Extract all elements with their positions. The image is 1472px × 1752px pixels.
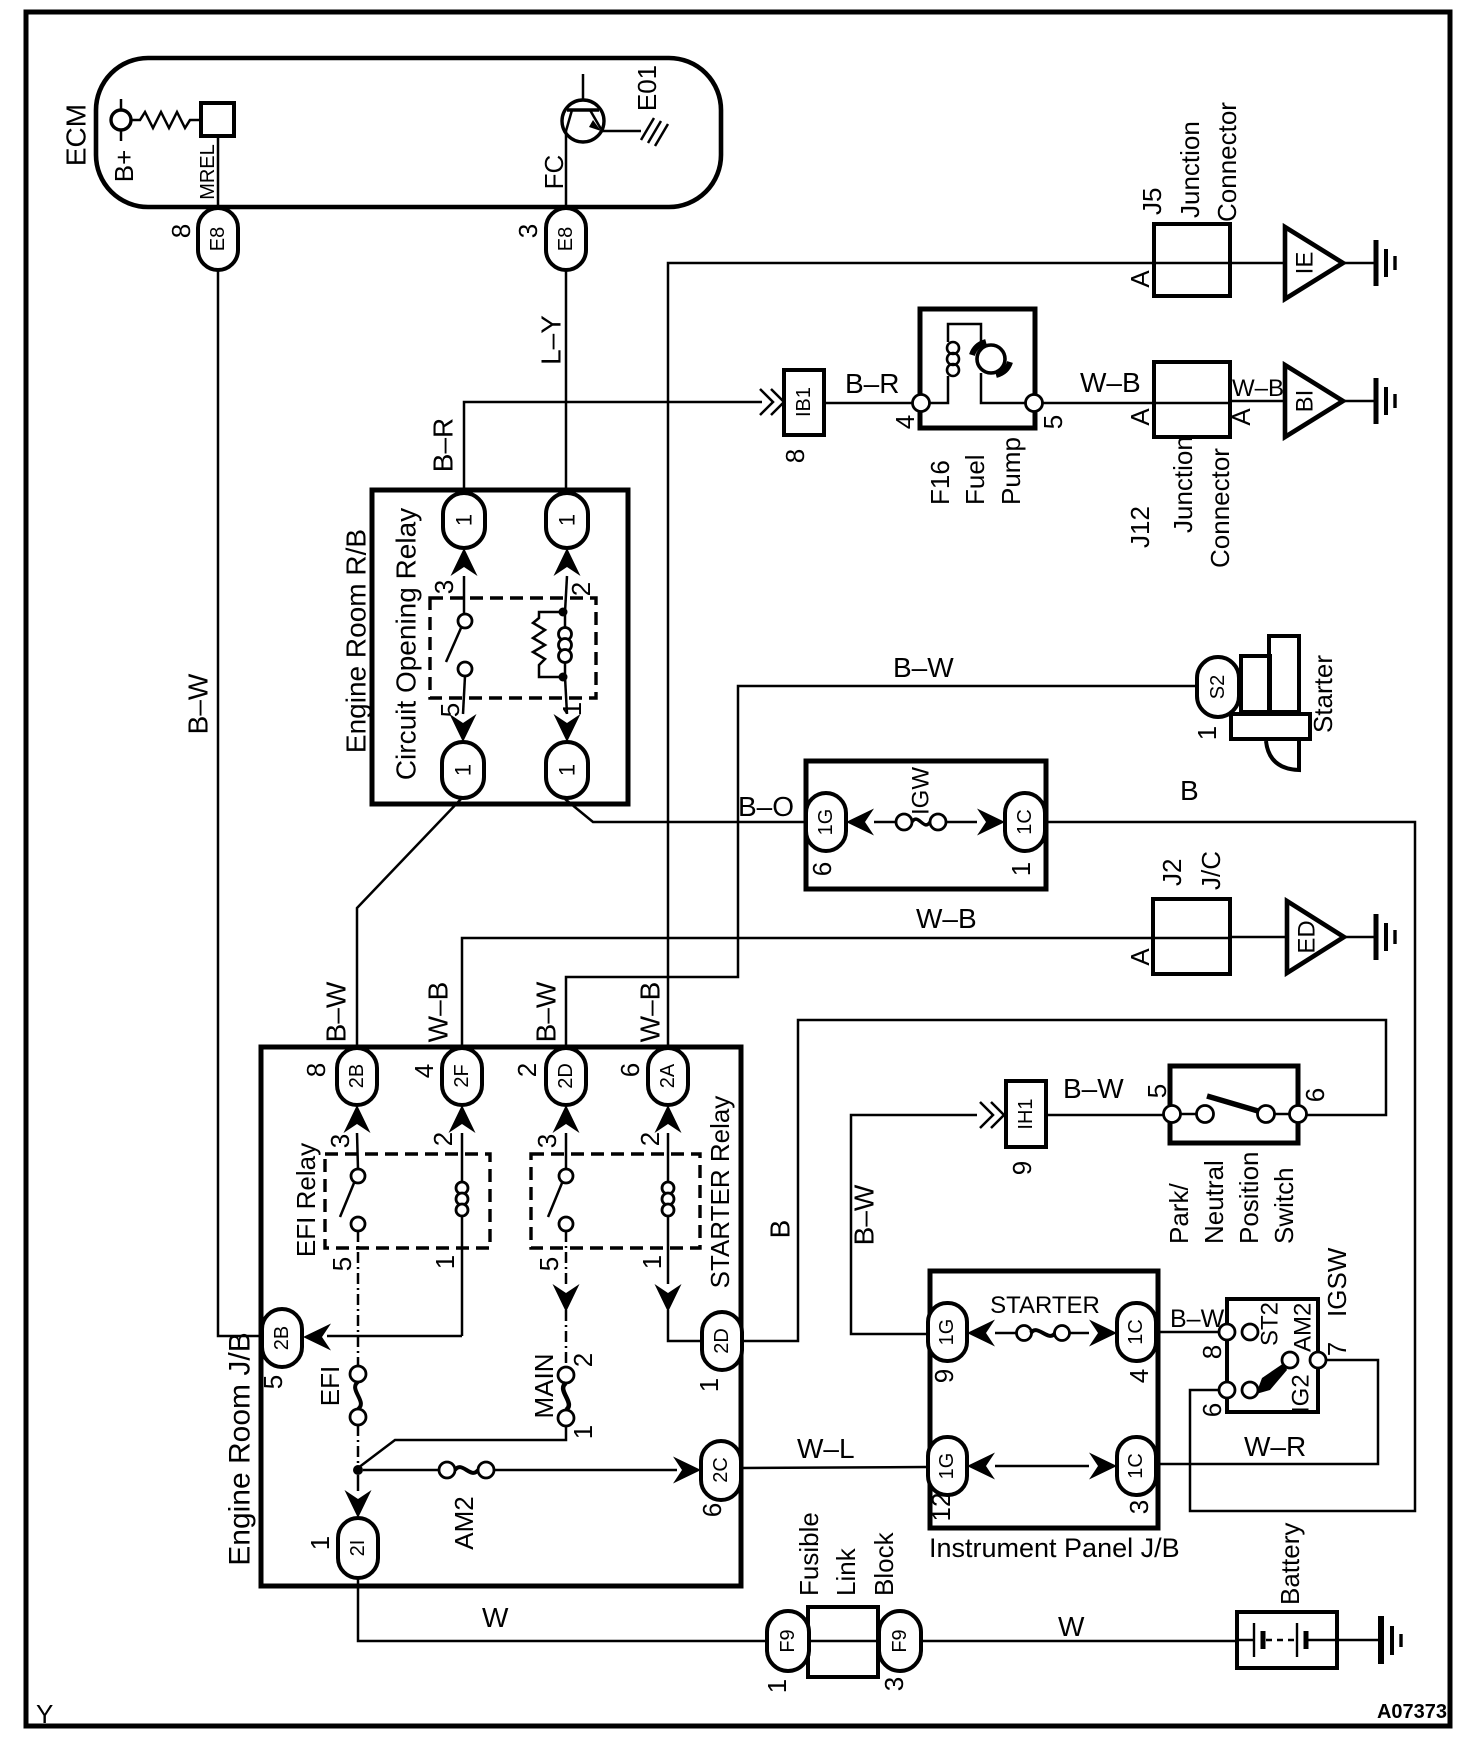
svg-text:F9: F9 xyxy=(889,1629,911,1652)
svg-text:W–R: W–R xyxy=(1244,1431,1306,1462)
svg-text:2: 2 xyxy=(428,1132,458,1146)
IP pin oval 1G top xyxy=(928,1303,967,1361)
IGW fuse xyxy=(874,814,977,830)
junction connector J2 xyxy=(1153,899,1230,974)
svg-text:1G: 1G xyxy=(936,1319,958,1346)
wire coil to pin1 xyxy=(565,677,567,714)
svg-text:1: 1 xyxy=(637,1255,667,1269)
svg-text:B: B xyxy=(1180,775,1199,806)
svg-text:B–W: B–W xyxy=(321,981,352,1042)
ground triangle IE xyxy=(1285,227,1343,299)
svg-text:2C: 2C xyxy=(710,1457,732,1483)
label J12 Junction Connector xyxy=(1125,436,1235,568)
svg-text:IE: IE xyxy=(1292,252,1319,275)
svg-text:2I: 2I xyxy=(347,1540,369,1557)
label F16 Fuel Pump xyxy=(925,437,1026,505)
IP pin oval 1G bottom xyxy=(928,1437,967,1495)
arrow into top-left oval xyxy=(451,548,478,576)
pin oval F9 left xyxy=(767,1611,809,1671)
pin 3 connector E8 (FC) xyxy=(546,208,586,270)
svg-text:F16: F16 xyxy=(925,460,955,505)
J/B pin oval 2I xyxy=(338,1518,378,1578)
junction connector J12 xyxy=(1154,362,1230,437)
svg-text:Link: Link xyxy=(831,1547,861,1596)
wire switch to pin5 xyxy=(463,676,465,714)
label Fusible Link Block xyxy=(794,1512,899,1596)
J/B side pin oval 2B xyxy=(262,1309,302,1367)
IGSW AM2 contacts xyxy=(1282,1352,1298,1368)
starter symbol xyxy=(1231,636,1310,770)
svg-text:9: 9 xyxy=(929,1369,959,1383)
svg-text:12: 12 xyxy=(926,1493,956,1522)
IGSW pin 6 contacts xyxy=(1219,1382,1235,1398)
svg-text:F9: F9 xyxy=(777,1629,799,1652)
svg-text:2: 2 xyxy=(568,1353,598,1367)
svg-text:1: 1 xyxy=(555,514,580,526)
svg-text:3: 3 xyxy=(513,224,543,238)
wire between bottom 1G and 1C xyxy=(995,1465,1089,1468)
svg-text:1C: 1C xyxy=(1014,809,1036,835)
svg-text:1G: 1G xyxy=(815,809,837,836)
wire FC to pin xyxy=(565,131,568,210)
relay pin oval 1 bottom-left xyxy=(442,742,484,798)
fuel pump F16 box xyxy=(920,309,1035,428)
svg-text:Fuel: Fuel xyxy=(960,454,990,505)
relay pin oval 1 top-right xyxy=(546,493,588,548)
svg-text:8: 8 xyxy=(166,224,196,238)
svg-text:1G: 1G xyxy=(936,1453,958,1480)
svg-text:A: A xyxy=(1125,270,1155,288)
wire J12 to BI triangle xyxy=(1230,400,1285,403)
resistor inside ECM xyxy=(131,112,201,128)
svg-text:Junction: Junction xyxy=(1168,436,1198,533)
label J5 Junction Connector xyxy=(1137,102,1242,222)
svg-text:1: 1 xyxy=(557,702,587,716)
svg-text:8: 8 xyxy=(780,449,810,463)
ground triangle BI xyxy=(1285,365,1343,437)
svg-text:B–W: B–W xyxy=(1170,1305,1225,1333)
transistor FC driver xyxy=(562,74,604,142)
wire through block xyxy=(767,1640,1237,1643)
svg-text:3: 3 xyxy=(325,1134,355,1148)
svg-text:Connector: Connector xyxy=(1212,102,1242,222)
arrow into top-right oval xyxy=(554,548,581,576)
svg-text:5: 5 xyxy=(1038,415,1068,429)
STARTER fuse xyxy=(995,1326,1089,1341)
MAIN fuse xyxy=(558,1367,574,1426)
wire STARTER relay 5 to MAIN fuse xyxy=(565,1231,568,1284)
wire junction to 2I xyxy=(357,1475,360,1491)
svg-text:5: 5 xyxy=(435,703,465,717)
label Park/Neutral Position Switch xyxy=(1164,1152,1299,1245)
svg-text:3: 3 xyxy=(1124,1500,1154,1514)
svg-text:5: 5 xyxy=(534,1257,564,1271)
J/B side pin oval 2D xyxy=(702,1312,742,1370)
switch blade xyxy=(1207,1096,1258,1111)
wire IE to ground xyxy=(1343,262,1374,265)
svg-text:Starter: Starter xyxy=(1308,655,1338,733)
ground symbol (IE) xyxy=(1376,240,1395,286)
J/B pin oval 2B xyxy=(337,1048,377,1105)
wire battery to ground xyxy=(1337,1639,1379,1642)
wire J2 to ED triangle xyxy=(1230,936,1287,939)
wire junction to AM2 fuse xyxy=(363,1469,439,1472)
svg-text:Instrument Panel J/B: Instrument Panel J/B xyxy=(929,1533,1180,1563)
svg-text:8: 8 xyxy=(301,1063,331,1077)
svg-text:2B: 2B xyxy=(346,1064,368,1088)
svg-text:Pump: Pump xyxy=(996,437,1026,505)
svg-text:Junction: Junction xyxy=(1175,121,1205,218)
svg-text:B+: B+ xyxy=(109,150,139,183)
Instrument Panel J/B box xyxy=(930,1271,1158,1528)
wire B-O relay to IGW 1G xyxy=(565,799,806,822)
STARTER Relay dashed box xyxy=(531,1154,700,1248)
svg-text:ECM: ECM xyxy=(61,104,92,166)
svg-text:Switch: Switch xyxy=(1269,1167,1299,1244)
svg-text:W: W xyxy=(482,1602,509,1633)
svg-text:4: 4 xyxy=(1124,1369,1154,1383)
svg-text:A: A xyxy=(1226,408,1256,426)
junction node xyxy=(353,1465,363,1475)
battery cells xyxy=(1237,1623,1337,1657)
fuel pump pin 5 xyxy=(1026,395,1043,412)
junction connector J5 xyxy=(1154,224,1230,296)
S2 pin oval xyxy=(1197,657,1239,717)
svg-text:B–W: B–W xyxy=(183,673,214,734)
arrow into 1C xyxy=(977,809,1005,836)
IGSW ignition switch box xyxy=(1227,1299,1318,1412)
Park/Neutral Position Switch box xyxy=(1170,1066,1298,1143)
svg-text:W–B: W–B xyxy=(916,903,977,934)
svg-text:1: 1 xyxy=(452,514,477,526)
svg-text:1C: 1C xyxy=(1125,1319,1147,1345)
wire W-R from AM2 to IP 1C bottom xyxy=(1156,1360,1378,1464)
fuel pump internals: coil xyxy=(929,324,981,403)
fuel pump pin 4 xyxy=(913,395,930,412)
svg-text:2B: 2B xyxy=(271,1326,293,1350)
connector arrow into IH1 xyxy=(980,1102,1004,1128)
wire L-Y from E8-3 down to relay xyxy=(565,270,568,494)
fuel pump internals: motor xyxy=(972,342,1026,403)
IP pin oval 1C bottom xyxy=(1117,1437,1156,1495)
svg-text:J2: J2 xyxy=(1157,859,1187,886)
svg-text:2D: 2D xyxy=(555,1063,577,1089)
svg-text:A: A xyxy=(1125,948,1155,966)
svg-text:2: 2 xyxy=(635,1132,665,1146)
svg-text:Battery: Battery xyxy=(1275,1523,1305,1605)
B+ source symbol xyxy=(120,99,123,141)
wire B-W from E8-8 down to Engine Room J/B 2B xyxy=(218,270,262,1336)
wire B-W from J/B 2D to S2 starter xyxy=(566,686,1197,1049)
svg-text:Park/: Park/ xyxy=(1164,1183,1194,1244)
svg-text:B–W: B–W xyxy=(531,981,562,1042)
svg-text:B–O: B–O xyxy=(738,791,794,822)
IP pin oval 1C top xyxy=(1117,1303,1156,1361)
connector IH1 xyxy=(1006,1081,1046,1147)
svg-text:EFI Relay: EFI Relay xyxy=(291,1143,321,1257)
svg-text:A: A xyxy=(1125,408,1155,426)
svg-text:1: 1 xyxy=(694,1378,724,1392)
J/B pin oval 2D xyxy=(546,1048,586,1105)
svg-text:5: 5 xyxy=(258,1375,288,1389)
relay pin oval 1 top-left xyxy=(443,493,485,548)
J/B pin oval 2C xyxy=(701,1441,741,1500)
svg-text:1C: 1C xyxy=(1125,1453,1147,1479)
svg-text:1: 1 xyxy=(305,1536,335,1550)
pin 8 connector E8 (MREL) xyxy=(198,208,238,270)
svg-text:3: 3 xyxy=(879,1677,909,1691)
ground symbol (ED) xyxy=(1376,914,1395,960)
svg-text:IG2: IG2 xyxy=(1288,1374,1315,1413)
EFI relay coil xyxy=(456,1133,468,1336)
svg-text:STARTER Relay: STARTER Relay xyxy=(705,1096,735,1289)
svg-text:5: 5 xyxy=(1142,1084,1172,1098)
svg-text:W–B: W–B xyxy=(635,982,666,1043)
ECM box xyxy=(96,58,721,207)
Fusible Link Block box xyxy=(808,1607,878,1677)
svg-text:E8: E8 xyxy=(207,227,229,251)
svg-text:E8: E8 xyxy=(555,227,577,251)
svg-text:2A: 2A xyxy=(657,1063,679,1088)
J/B pin oval 2A xyxy=(648,1048,688,1105)
svg-text:1: 1 xyxy=(1192,726,1222,740)
svg-text:IGW: IGW xyxy=(908,767,935,815)
IGW fuse box xyxy=(806,761,1046,889)
wire W-B pump to J12 xyxy=(1043,402,1154,405)
svg-text:2D: 2D xyxy=(711,1328,733,1354)
svg-text:1: 1 xyxy=(1006,862,1036,876)
svg-text:IGSW: IGSW xyxy=(1322,1247,1352,1317)
wire coil to 2B side pin xyxy=(327,1335,462,1338)
relay switch blade xyxy=(446,628,461,662)
svg-text:Block: Block xyxy=(869,1531,899,1596)
svg-text:W–B: W–B xyxy=(1232,375,1284,402)
wire W-B from J/B 2F to J2 xyxy=(462,938,1153,1049)
svg-text:1: 1 xyxy=(568,1425,598,1439)
wire EFI fuse to junction xyxy=(357,1425,360,1465)
arrow into bottom-left oval xyxy=(450,714,477,742)
svg-text:AM2: AM2 xyxy=(1290,1303,1317,1352)
wire AM2 fuse to 2C xyxy=(494,1469,677,1472)
connector IB1 xyxy=(784,370,824,435)
svg-text:6: 6 xyxy=(1197,1403,1227,1417)
relay internal dashed box xyxy=(430,598,596,698)
wire EFI relay 5 to EFI fuse xyxy=(357,1231,360,1366)
svg-text:W–B: W–B xyxy=(423,982,454,1043)
svg-text:6: 6 xyxy=(1300,1088,1330,1102)
wire coil to 2D side pin xyxy=(668,1310,702,1341)
IGW 1C oval xyxy=(1005,793,1045,851)
svg-text:A07373: A07373 xyxy=(1377,1701,1447,1723)
E01 body ground xyxy=(641,118,668,146)
IGSW pin 8 contacts xyxy=(1219,1324,1235,1340)
svg-text:MAIN: MAIN xyxy=(529,1354,559,1419)
svg-text:L–Y: L–Y xyxy=(536,315,567,365)
svg-text:E01: E01 xyxy=(632,65,662,111)
wire W-L from 2C to IP 1G bottom xyxy=(742,1467,927,1468)
svg-text:W–L: W–L xyxy=(797,1433,855,1464)
svg-text:BI: BI xyxy=(1292,390,1319,413)
svg-text:IB1: IB1 xyxy=(793,387,815,417)
wire ED to ground xyxy=(1344,936,1374,939)
arrow into 1G xyxy=(846,809,874,836)
svg-text:B–R: B–R xyxy=(428,418,459,472)
svg-text:B–W: B–W xyxy=(849,1184,880,1245)
AM2 fuse xyxy=(439,1462,494,1478)
svg-text:B: B xyxy=(765,1220,796,1239)
STARTER relay coil xyxy=(662,1133,674,1284)
wire B from IGW 1C to IGSW pin 6 xyxy=(1045,822,1415,1511)
svg-text:1: 1 xyxy=(762,1679,792,1693)
Engine Room J/B box xyxy=(261,1047,741,1586)
relay coil with parallel resistor xyxy=(533,608,572,682)
ground triangle ED xyxy=(1287,901,1344,973)
wire J5 to IE triangle xyxy=(1230,262,1285,265)
svg-text:Position: Position xyxy=(1234,1152,1264,1245)
wire collector to E01 ground xyxy=(600,130,641,133)
relay switch contacts xyxy=(458,614,472,628)
wire B-R from relay pin 3 to IB1 xyxy=(464,402,762,494)
EFI Relay dashed box xyxy=(325,1154,490,1248)
wire pin2 to coil xyxy=(565,576,567,612)
wire BI to ground xyxy=(1343,400,1374,403)
ground symbol (BI) xyxy=(1376,378,1395,424)
svg-text:IH1: IH1 xyxy=(1015,1098,1037,1129)
label J2 J/C xyxy=(1157,851,1226,890)
svg-text:AM2: AM2 xyxy=(449,1496,479,1549)
switch contacts xyxy=(1164,1106,1181,1123)
connector arrow into IB1 xyxy=(760,389,784,415)
svg-text:2: 2 xyxy=(566,582,596,596)
wire MREL to pin xyxy=(217,136,220,210)
EFI fuse xyxy=(350,1366,366,1425)
svg-text:3: 3 xyxy=(429,580,459,594)
svg-text:3: 3 xyxy=(532,1134,562,1148)
svg-text:5: 5 xyxy=(327,1257,357,1271)
wire diagonal relay to 2B riser xyxy=(357,799,461,1049)
STARTER relay switch xyxy=(565,1133,568,1169)
IGW 1G oval xyxy=(806,793,846,851)
svg-text:Engine Room J/B: Engine Room J/B xyxy=(224,1332,257,1565)
svg-text:J12: J12 xyxy=(1125,506,1155,548)
svg-text:ED: ED xyxy=(1294,920,1321,953)
svg-text:STARTER: STARTER xyxy=(990,1292,1100,1319)
svg-text:6: 6 xyxy=(697,1503,727,1517)
svg-text:Connector: Connector xyxy=(1205,448,1235,568)
wire pin3 to switch xyxy=(463,576,466,614)
svg-text:W: W xyxy=(1058,1611,1085,1642)
svg-text:1: 1 xyxy=(451,764,476,776)
svg-text:4: 4 xyxy=(890,415,920,429)
svg-text:S2: S2 xyxy=(1207,675,1229,699)
svg-text:B–W: B–W xyxy=(893,652,954,683)
svg-text:2: 2 xyxy=(512,1063,542,1077)
svg-text:6: 6 xyxy=(807,862,837,876)
wire IH1 to Park/Neutral switch xyxy=(1046,1114,1164,1117)
wire W-B from J/B 2A up to J5 xyxy=(668,263,1154,1049)
svg-text:9: 9 xyxy=(1007,1161,1037,1175)
arrow into bottom-right oval xyxy=(554,714,581,742)
svg-text:B–R: B–R xyxy=(845,368,899,399)
wire B from 2D side pin to Park/Neutral xyxy=(742,1020,1386,1341)
svg-text:ST2: ST2 xyxy=(1257,1302,1284,1346)
svg-text:1: 1 xyxy=(555,764,580,776)
svg-text:J5: J5 xyxy=(1137,188,1167,215)
wire B-W IP 1C to IGSW pin 8 xyxy=(1156,1331,1219,1334)
svg-text:Y: Y xyxy=(36,1699,53,1729)
svg-text:W–B: W–B xyxy=(1080,367,1141,398)
MREL driver square xyxy=(201,103,234,136)
Engine Room R/B box (Circuit Opening Relay) xyxy=(372,490,628,804)
wire B-R IB1 to fuel pump pin4 xyxy=(824,402,913,405)
svg-text:1: 1 xyxy=(430,1255,460,1269)
svg-text:Circuit Opening Relay: Circuit Opening Relay xyxy=(391,508,422,780)
svg-text:Neutral: Neutral xyxy=(1199,1160,1229,1244)
svg-text:6: 6 xyxy=(615,1063,645,1077)
wire MAIN fuse to junction xyxy=(358,1426,566,1468)
svg-text:Engine Room R/B: Engine Room R/B xyxy=(341,529,372,753)
IGSW wiper blade xyxy=(1256,1363,1287,1394)
arrow on coil line xyxy=(655,1284,682,1312)
wire B-W from IP 1G up to IH1 xyxy=(851,1115,977,1334)
EFI relay switch xyxy=(357,1133,358,1169)
Battery box xyxy=(1237,1612,1337,1668)
pin oval F9 right xyxy=(879,1611,921,1671)
wire W from 2I to fusible link block xyxy=(358,1578,767,1641)
J/B pin oval 2F xyxy=(442,1048,482,1105)
svg-text:7: 7 xyxy=(1322,1342,1352,1356)
svg-text:B–W: B–W xyxy=(1063,1073,1124,1104)
relay pin oval 1 bottom-right xyxy=(546,742,588,798)
svg-text:4: 4 xyxy=(409,1064,439,1078)
ground symbol (battery) xyxy=(1381,1616,1401,1664)
svg-text:2F: 2F xyxy=(451,1064,473,1087)
svg-text:8: 8 xyxy=(1197,1345,1227,1359)
svg-text:J/C: J/C xyxy=(1196,851,1226,890)
svg-text:MREL: MREL xyxy=(197,144,219,200)
svg-text:Fusible: Fusible xyxy=(794,1512,824,1596)
svg-text:EFI: EFI xyxy=(315,1366,345,1406)
svg-text:FC: FC xyxy=(539,155,569,190)
